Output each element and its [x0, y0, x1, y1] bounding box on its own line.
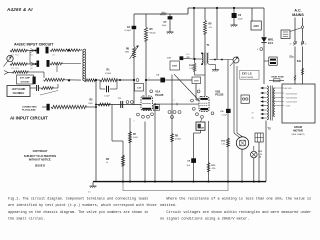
svg-text:MOTOR: MOTOR [293, 128, 303, 132]
svg-text:4: 4 [149, 78, 150, 80]
left hand channel box [7, 86, 30, 97]
wire ext ls pair [234, 63, 237, 133]
label S1b [297, 61, 302, 63]
svg-text:EC1: EC1 [268, 41, 274, 45]
wire connector down [258, 142, 260, 182]
svg-text:○ 200/220/240V: ○ 200/220/240V [285, 93, 299, 95]
voltage box V1B grid [192, 77, 201, 84]
resistor R18 input row3 [12, 71, 28, 74]
svg-text:7: 7 [199, 89, 200, 91]
svg-text:2MΩ: 2MΩ [125, 52, 130, 54]
label T2 [267, 127, 271, 131]
svg-text:Circuit voltages are shown wit: Circuit voltages are shown within rectan… [160, 210, 311, 215]
svg-text:45: 45 [290, 44, 292, 46]
grid stopper wire [117, 79, 139, 82]
svg-text:MAINS: MAINS [292, 13, 304, 17]
svg-text:47: 47 [252, 113, 254, 115]
node wiper [133, 79, 135, 81]
svg-text:GRAM: GRAM [294, 125, 302, 129]
chassis bus [93, 181, 266, 183]
svg-text:A4260 & AI: A4260 & AI [6, 7, 33, 12]
svg-text:C12: C12 [52, 55, 55, 57]
output transformer T1 secondary [207, 53, 208, 63]
valve V1A cathode bar [142, 108, 151, 110]
valve V1B pins [191, 99, 214, 118]
svg-text:PLUG&LEAD: PLUG&LEAD [22, 109, 36, 112]
wire V1A pin to R7 [129, 118, 131, 182]
thermal link break [294, 68, 304, 80]
capacitor C10 label [167, 56, 183, 60]
svg-text:C13 R16: C13 R16 [11, 68, 19, 70]
resistor R19 input row4 [44, 78, 65, 81]
wire R5 to V1A anode [145, 41, 147, 95]
wire T1 sec bottom [209, 65, 216, 69]
resistor stub rail left [160, 13, 166, 15]
loudspeaker LS [236, 137, 248, 149]
wire AI input to riser [86, 106, 97, 108]
wire HT to MR1 [263, 8, 265, 37]
svg-text:40pF: 40pF [162, 25, 167, 27]
resistor R16 input row2 [10, 63, 27, 66]
wire row5 diag [40, 91, 58, 96]
output transformer T1 core [205, 52, 206, 65]
svg-text:100pF: 100pF [104, 95, 110, 97]
svg-text:190V: 190V [172, 66, 178, 68]
resistor R15b [64, 49, 80, 52]
svg-text:4.7k: 4.7k [189, 68, 193, 70]
svg-text:LEFT HAND: LEFT HAND [12, 88, 26, 91]
bus return loop [123, 182, 228, 190]
capacitor C8 [187, 158, 196, 167]
svg-text:2: 2 [126, 103, 127, 105]
svg-text:are identified by test point (: are identified by test point (t.p.) numb… [8, 203, 157, 208]
figure caption left column [8, 196, 157, 221]
svg-text:S1b: S1b [297, 61, 302, 63]
valve V1A envelope [141, 96, 153, 111]
connecting plug lead label [22, 106, 37, 111]
valve V1B anode bar [200, 98, 208, 100]
mains wire left upper [294, 18, 296, 42]
wire T1 to V1B anode [204, 65, 206, 96]
wire row4 to coil [64, 79, 81, 81]
svg-text:AD 240V: AD 240V [285, 87, 293, 90]
capacitor C3 [118, 98, 123, 108]
voltage box T1 [170, 61, 179, 70]
svg-text:T2: T2 [267, 127, 271, 131]
tp labels speaker [252, 113, 254, 120]
resistor R1 [100, 68, 117, 81]
wire row5 [30, 84, 58, 88]
svg-text:Fig.1. The circuit diagram. Co: Fig.1. The circuit diagram. Component te… [8, 196, 148, 201]
heading A426C INPUT CIRCUIT [14, 43, 54, 47]
capacitor C16 [33, 77, 36, 85]
capacitor C15 [47, 60, 50, 67]
pilot lamp PL1 [251, 151, 264, 159]
input circuit label specks row2 [11, 68, 33, 70]
wire row1 to coil [80, 49, 82, 51]
valve V1A grid dashes [143, 103, 152, 105]
wire row2 [27, 63, 36, 65]
wire S1b down [302, 47, 304, 85]
resistor R8 [171, 134, 182, 142]
svg-text:210V: 210V [254, 26, 260, 28]
node input to amp [95, 79, 97, 81]
tp digit marks [126, 12, 306, 123]
thermistor box [264, 57, 277, 65]
wire T3 top stub [80, 49, 82, 50]
svg-text:A.C.: A.C. [294, 9, 301, 13]
wire C4 branch [227, 60, 229, 182]
label A.C. MAINS [292, 9, 304, 18]
link fork [4, 71, 12, 75]
vertical link row2-row3 [56, 64, 58, 72]
capacitor C7 [162, 14, 172, 27]
svg-text:COPYRIGHT: COPYRIGHT [33, 150, 48, 153]
valve V1B envelope [199, 97, 209, 112]
wire V1A pin down b [154, 103, 156, 181]
wire R10 join [195, 59, 206, 75]
svg-text:470kΩ: 470kΩ [175, 139, 181, 141]
capacitor C5 [156, 75, 165, 83]
wire HT rail lower [134, 13, 188, 15]
resistor R12 [221, 138, 229, 147]
svg-text:1k: 1k [106, 162, 108, 164]
rectifier MR1 [261, 37, 274, 45]
svg-text:HEAT FUSE: HEAT FUSE [272, 76, 285, 79]
node rail mid [216, 7, 218, 9]
valve V1B cathode bar [200, 108, 208, 110]
node rail C6 [233, 7, 235, 9]
wire R6 to grid node [133, 58, 135, 106]
label gram motor [292, 125, 305, 136]
svg-text:ISSUE B: ISSUE B [35, 165, 45, 168]
voltage box V1A grid [135, 84, 144, 92]
input jack J1 [4, 55, 14, 66]
svg-text:○ 200/220/240V: ○ 200/220/240V [285, 98, 299, 100]
wire C2 to R6 [133, 29, 135, 47]
svg-text:4.7k: 4.7k [209, 27, 213, 29]
svg-text:14V: 14V [200, 126, 204, 129]
svg-text:appearing on the chassis diagr: appearing on the chassis diagram. The va… [8, 210, 148, 215]
svg-text:6: 6 [257, 49, 258, 51]
wire speaker to bus [241, 149, 243, 181]
ground C6 [231, 24, 238, 27]
component block V1A cathode [154, 105, 160, 111]
mains transformer T2 primary [267, 86, 268, 120]
capacitor C13 [37, 61, 40, 67]
svg-text:AI INPUT CIRCUIT: AI INPUT CIRCUIT [10, 116, 48, 121]
wire T1 secondary out [210, 59, 234, 61]
svg-text:0.04μF: 0.04μF [222, 114, 229, 116]
wire row2 to coil [62, 63, 81, 65]
resistor R5 [144, 27, 155, 41]
svg-text:R17: R17 [30, 68, 33, 70]
valve V1A anode bar [142, 97, 151, 99]
figure caption right column [160, 196, 311, 221]
svg-text:9: 9 [174, 100, 175, 102]
ext ls jack [230, 57, 239, 66]
motor box tap rows [272, 87, 298, 108]
svg-text:Where the resistance of a wind: Where the resistance of a winding is les… [160, 196, 311, 201]
resistor R22 AI input [51, 105, 86, 108]
label V1A [155, 90, 164, 97]
resistor R10 [189, 63, 196, 71]
svg-text:WITHOUT NOTICE.: WITHOUT NOTICE. [29, 159, 52, 162]
capacitor C6 [232, 8, 244, 21]
wire C5 to V1B grid [165, 80, 199, 100]
svg-text:(SEE CHART): (SEE CHART) [292, 133, 305, 136]
bus junction dots [122, 181, 260, 183]
capacitor C12 [46, 47, 49, 54]
wire C2 drop [133, 14, 135, 26]
svg-text:0.04μF: 0.04μF [124, 30, 131, 32]
wire row1 [27, 50, 36, 52]
svg-text:EXT. L.S.: EXT. L.S. [242, 73, 252, 76]
output transformer T1 primary [201, 52, 203, 65]
svg-text:170V: 170V [194, 81, 199, 83]
wire V1B cathode down [194, 118, 203, 181]
svg-text:1MΩ: 1MΩ [88, 103, 93, 105]
voltage box V1B cathode [196, 122, 205, 130]
svg-text:A426C INPUT CIRCUIT: A426C INPUT CIRCUIT [14, 43, 54, 47]
test point circle MR1 [257, 48, 263, 52]
svg-text:PCL85: PCL85 [215, 93, 224, 97]
wire T1 primary feed [193, 8, 202, 60]
wire cathode branch [112, 105, 123, 182]
svg-text:10kΩ: 10kΩ [133, 137, 138, 139]
wire row3 [28, 72, 44, 78]
wire R9 to screen [204, 34, 206, 52]
node V1A anode tap [145, 79, 147, 81]
svg-text:SOCKET: SOCKET [20, 81, 30, 83]
node row1-coil [68, 49, 70, 51]
svg-text:46: 46 [305, 44, 307, 46]
resistor R7 [129, 132, 139, 143]
mains transformer T2 core [271, 86, 273, 121]
wire screen drop [204, 8, 206, 20]
mains socket box [241, 95, 249, 103]
grid circuit wire [95, 104, 141, 106]
mains transformer T2 secondary [274, 88, 275, 117]
chassis ground symbol [88, 182, 97, 193]
switch contact S1b [301, 41, 304, 46]
wire C7 to ground [169, 19, 171, 30]
svg-text:3: 3 [134, 121, 135, 123]
resistor R13 [207, 163, 216, 172]
svg-text:no signal conditions using a 2: no signal conditions using a 20kΩ/V mete… [160, 217, 249, 222]
wire HT rail upper [188, 8, 264, 14]
svg-text:EXT. AMP: EXT. AMP [20, 77, 31, 80]
capacitor C18 AI input [47, 104, 50, 111]
svg-text:PCL85: PCL85 [155, 93, 164, 97]
svg-text:0.01: 0.01 [186, 54, 190, 56]
volume control R6 [125, 46, 139, 60]
wire S1a down [294, 47, 296, 85]
node R1 out [119, 79, 121, 81]
svg-text:470k: 470k [212, 168, 216, 170]
capacitor C4 [221, 109, 231, 117]
svg-text:48: 48 [252, 118, 254, 120]
svg-text:CHANNEL: CHANNEL [13, 92, 25, 95]
switch contact S1a [294, 41, 297, 46]
resistor R15 [50, 49, 64, 52]
vertical link row1-row2 [29, 51, 31, 65]
label T1 [207, 44, 211, 47]
capacitor C11 [37, 48, 40, 54]
ground T1 secondary [212, 68, 219, 71]
ext amp socket box [17, 75, 34, 84]
valve pin circles V1B heater [168, 111, 181, 119]
contact arrow row1 [30, 49, 37, 53]
wire V1A pin down a [144, 122, 146, 182]
wire anode drop R5 [145, 14, 147, 27]
valve V1B grid dashes [201, 103, 209, 105]
ground C7 [167, 31, 174, 34]
wire MR1 down [263, 43, 265, 84]
wire speaker top [234, 133, 243, 138]
resistor R2 [88, 99, 110, 106]
wire input riser to bus [95, 81, 97, 182]
heading AI INPUT CIRCUIT [10, 116, 48, 121]
contact arrow row2 [30, 62, 37, 66]
gram motor box [282, 84, 315, 123]
svg-text:50μF: 50μF [238, 19, 243, 21]
resistor R9 [204, 20, 213, 34]
node rail T1 [193, 7, 195, 9]
coupling wire C5 [146, 79, 160, 81]
node row4 [68, 79, 70, 81]
wire C10 to T1 [183, 57, 194, 60]
switch S1 box [281, 30, 290, 39]
svg-text:470kΩ: 470kΩ [105, 73, 112, 75]
capacitor C9 label [186, 54, 190, 59]
heater run wire [155, 103, 199, 106]
wire AI input [42, 106, 47, 108]
resistor R14 input row1 [10, 49, 27, 52]
wire T2 to bus [265, 121, 267, 182]
resistor R17 [50, 62, 62, 65]
switch S1 lever [290, 26, 304, 32]
valve V1A top pin circle [150, 90, 153, 93]
svg-text:(HIGH OHMS): (HIGH OHMS) [241, 77, 254, 79]
valve V1B top pin circle [197, 90, 200, 93]
title A4260 & AI [6, 7, 33, 12]
svg-text:○ 110V: ○ 110V [285, 106, 291, 108]
heat fuse [269, 76, 284, 82]
connector box PL [255, 133, 263, 142]
label V1B [215, 89, 224, 96]
wire mid drop [216, 8, 218, 60]
resistor R3 [106, 155, 125, 166]
valve V1A pins [137, 113, 154, 118]
mains wire right mid [302, 28, 304, 41]
capacitor C1 branch [100, 80, 117, 97]
label S1a [289, 57, 294, 59]
mains wire right upper [302, 18, 304, 27]
resistor R20 [85, 79, 96, 82]
wire V1B pin down [208, 121, 210, 182]
capacitor C17 row5 [37, 85, 39, 91]
svg-text:R15: R15 [30, 55, 33, 57]
svg-text:the small circles.: the small circles. [8, 217, 45, 222]
input circuit label specks row1 [11, 55, 55, 57]
svg-text:MR1: MR1 [268, 37, 274, 41]
svg-text:1.5V: 1.5V [137, 87, 142, 89]
svg-text:omitted.: omitted. [160, 203, 177, 208]
wire lamp to bus [254, 146, 259, 182]
input transformer T3 secondary [83, 50, 84, 81]
resistor R21 row5 [41, 87, 53, 90]
voltage box HT [251, 8, 261, 30]
feedback wire diagonal [174, 74, 200, 101]
svg-text:CONNECTING: CONNECTING [22, 106, 37, 108]
wire C6 to ground [233, 18, 235, 24]
svg-text:S1a: S1a [289, 57, 294, 59]
mains transformer T2 taps [261, 87, 267, 119]
input transformer T3 primary [84, 49, 85, 81]
svg-text:680kΩ: 680kΩ [150, 33, 156, 35]
wire input node to R1 [96, 79, 100, 81]
ext ls label box [240, 70, 259, 79]
svg-text:5.6k: 5.6k [221, 143, 225, 145]
copyright note block [24, 150, 56, 168]
svg-text:C11 R14: C11 R14 [11, 55, 18, 57]
wire feedback riser [171, 75, 173, 182]
valve pin circles grid [126, 101, 133, 104]
svg-text:○ 110/115/130V: ○ 110/115/130V [285, 102, 298, 104]
capacitor C2 [124, 26, 136, 32]
